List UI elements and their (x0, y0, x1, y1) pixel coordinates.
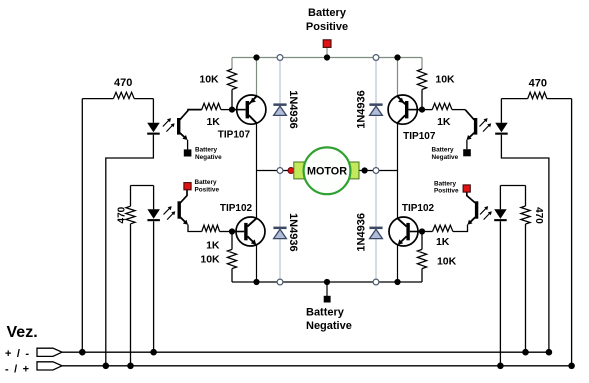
wire Q1 collector to motor (256, 123, 258, 170)
junction Q1 base node (229, 107, 235, 113)
pin top rail / left diode (277, 55, 283, 61)
diode D3 1N4936 bottom-left (273, 227, 286, 230)
resistor R6 10K lower-left (231, 232, 233, 250)
wire motor to Q4 collector (397, 171, 399, 219)
transistor Q2 TIP107 top-right (388, 95, 417, 124)
junction Q3 base node (229, 228, 235, 234)
junction bus2 / LED4 cathode (497, 363, 504, 370)
optocoupler U3 light arrows (479, 119, 486, 126)
wire motor line (257, 170, 398, 172)
transistor Q4 TIP102 bottom-right (389, 217, 418, 246)
motor M1 left terminal block (294, 162, 304, 179)
svg-text:TIP107: TIP107 (403, 131, 436, 142)
wire right diode column (375, 58, 377, 283)
junction bottom rail / Q4 emitter (394, 279, 400, 285)
resistor R2 1K left-upper (202, 103, 221, 109)
phototransistor U1 emitter (180, 133, 186, 139)
diode D2 1N4936 top-right (369, 103, 382, 106)
junction Q2 base node (419, 107, 425, 113)
optocoupler U1 light arrows (163, 119, 170, 126)
svg-text:+ / -: + / - (5, 348, 30, 360)
optocoupler U4 light arrows (480, 207, 487, 214)
node motor left terminal (red) (288, 167, 294, 173)
wire LED3 cathode jog to bus1 (501, 135, 549, 353)
svg-text:1N4936: 1N4936 (356, 90, 368, 129)
svg-text:Positive: Positive (434, 188, 459, 195)
wire Q3 emitter to bottom rail (256, 245, 258, 282)
wire bus1 (+/-) (62, 351, 549, 353)
wire right outer vertical to bus2 (571, 99, 573, 366)
resistor R10 470 lower-right (525, 186, 527, 207)
svg-text:1K: 1K (437, 116, 451, 128)
svg-text:1K: 1K (206, 116, 220, 128)
wire bottom rail (battery negative net) (232, 281, 422, 283)
svg-text:Battery: Battery (434, 180, 456, 187)
LED D7 optocoupler U3 emitter (495, 123, 508, 133)
diode D1 1N4936 top-left (273, 103, 286, 106)
node motor right terminal (black) (362, 167, 368, 173)
motor M1 body (304, 147, 351, 194)
svg-text:10K: 10K (200, 253, 220, 265)
wire LED3 anode drop (500, 99, 502, 123)
LED D5 optocoupler U1 emitter (147, 123, 160, 133)
svg-text:Positive: Positive (306, 21, 348, 33)
LED D8 optocoupler U4 emitter (494, 209, 507, 219)
pin bottom rail / left diode (277, 279, 283, 285)
battery negative terminal square (U1) (184, 149, 192, 156)
phototransistor U2 emitter (180, 217, 186, 223)
battery positive terminal square (323, 40, 331, 48)
optocoupler U2 light arrows (164, 207, 171, 214)
svg-text:470: 470 (529, 78, 547, 90)
wire top rail (battery positive net) (232, 57, 422, 59)
svg-text:Negative: Negative (195, 154, 222, 161)
svg-text:1N4936: 1N4936 (356, 213, 368, 252)
phototransistor U3 emitter (468, 133, 474, 139)
phototransistor U1 collector (180, 110, 202, 120)
pin bottom rail / right diode (373, 279, 379, 285)
phototransistor U3 collector (465, 110, 474, 120)
wire battery negative stub (326, 282, 328, 296)
phototransistor U1 base bar (177, 118, 180, 135)
wire bus2 (-/+) (62, 365, 572, 367)
wire LED2 anode drop (153, 186, 155, 210)
svg-text:Negative: Negative (432, 154, 459, 161)
svg-text:470: 470 (533, 207, 544, 224)
svg-text:- / +: - / + (5, 363, 30, 375)
LED D6 optocoupler U2 emitter (147, 209, 160, 219)
svg-text:TIP102: TIP102 (402, 203, 435, 214)
resistor R1 470 top-left (82, 98, 113, 100)
junction bus1 / LED3 drop (546, 349, 553, 356)
wire lower-left loop top (131, 185, 154, 187)
wire battery positive stub (326, 47, 328, 58)
pin motor line / left diode (277, 168, 283, 174)
svg-text:TIP102: TIP102 (220, 203, 253, 214)
junction bus2 / R4 column (127, 363, 134, 370)
battery positive terminal square (U2) (184, 183, 191, 190)
phototransistor U2 collector (180, 190, 187, 203)
svg-text:470: 470 (114, 77, 132, 89)
junction bus2 / right outer vertical (568, 363, 575, 370)
svg-text:1N4936: 1N4936 (287, 90, 299, 129)
resistor R4 470 lower-left (130, 186, 132, 207)
svg-text:Battery: Battery (195, 147, 217, 154)
wire LED4 cathode to bus2 (499, 221, 501, 366)
wire lower-right loop top (500, 185, 525, 187)
junction bus1 / LED2 cathode (150, 349, 157, 356)
resistor R11 1K lower-right (433, 225, 453, 231)
junction Q4 base node (419, 228, 425, 234)
phototransistor U4 base bar (475, 201, 478, 218)
junction top rail / Q2 emitter (394, 54, 400, 60)
resistor R5 1K lower-left (202, 225, 220, 231)
battery positive terminal square (U4) (463, 185, 470, 192)
junction bottom rail / battery negative (324, 279, 330, 285)
svg-text:470: 470 (117, 206, 128, 223)
wire right collector column upper (397, 58, 399, 97)
svg-text:Battery: Battery (308, 7, 347, 19)
connector J2 minus/plus (37, 362, 62, 370)
junction top rail / Q1 emitter (253, 54, 259, 60)
resistor R7 10K right-upper (421, 58, 423, 70)
resistor R8 1K right-upper (422, 109, 432, 111)
transistor Q3 TIP102 bottom-left (236, 217, 265, 246)
svg-text:Vez.: Vez. (7, 324, 38, 341)
resistor R3 10K left-upper (231, 58, 233, 70)
phototransistor U2 base bar (178, 201, 181, 218)
connector J1 plus/minus (37, 348, 62, 356)
junction top rail / battery positive (324, 54, 330, 60)
battery negative terminal square (324, 296, 331, 303)
battery negative terminal square (U3) (463, 149, 471, 156)
wire left diode column (279, 58, 281, 283)
phototransistor U3 base bar (474, 118, 477, 135)
wire LED2 cathode to bus1 (153, 221, 155, 352)
svg-text:10K: 10K (435, 73, 455, 85)
svg-text:1K: 1K (206, 240, 220, 252)
svg-text:TIP107: TIP107 (218, 130, 251, 141)
wire Q4 emitter to bottom rail (397, 245, 399, 282)
wire LED4 anode drop (499, 186, 501, 210)
wire Q2 collector to motor (397, 123, 399, 170)
diode D4 1N4936 bottom-right (369, 227, 382, 230)
junction bus2 / LED1 drop (103, 363, 110, 370)
junction bus1 / left outer vertical (79, 349, 86, 356)
phototransistor U4 collector (467, 192, 475, 203)
svg-text:Battery: Battery (432, 147, 454, 154)
svg-text:MOTOR: MOTOR (307, 166, 347, 178)
wire LED1 anode drop (152, 99, 154, 123)
wire left collector column upper (256, 58, 258, 97)
svg-text:Battery: Battery (195, 179, 217, 186)
wire left outer vertical to bus1 (81, 99, 83, 353)
junction bus1 / R10 column (522, 349, 529, 356)
junction bottom rail / Q3 emitter (253, 279, 259, 285)
svg-text:10K: 10K (199, 73, 219, 85)
pin top rail / right diode (373, 55, 379, 61)
resistor R12 10K lower-right (421, 232, 423, 250)
pin motor line / right diode (373, 168, 379, 174)
transistor Q1 TIP107 top-left (237, 95, 266, 124)
phototransistor U4 emitter (469, 217, 475, 223)
svg-text:Positive: Positive (195, 186, 220, 193)
svg-text:1K: 1K (436, 236, 450, 248)
motor M1 right terminal block (349, 162, 359, 179)
svg-text:Battery: Battery (306, 306, 345, 318)
svg-text:Negative: Negative (306, 320, 352, 332)
resistor R9 470 top-right (501, 98, 527, 100)
svg-text:10K: 10K (437, 256, 457, 268)
wire LED1 cathode jog to bus2 (106, 135, 154, 366)
svg-text:1N4936: 1N4936 (287, 213, 299, 252)
wire motor to Q3 collector (256, 171, 258, 219)
